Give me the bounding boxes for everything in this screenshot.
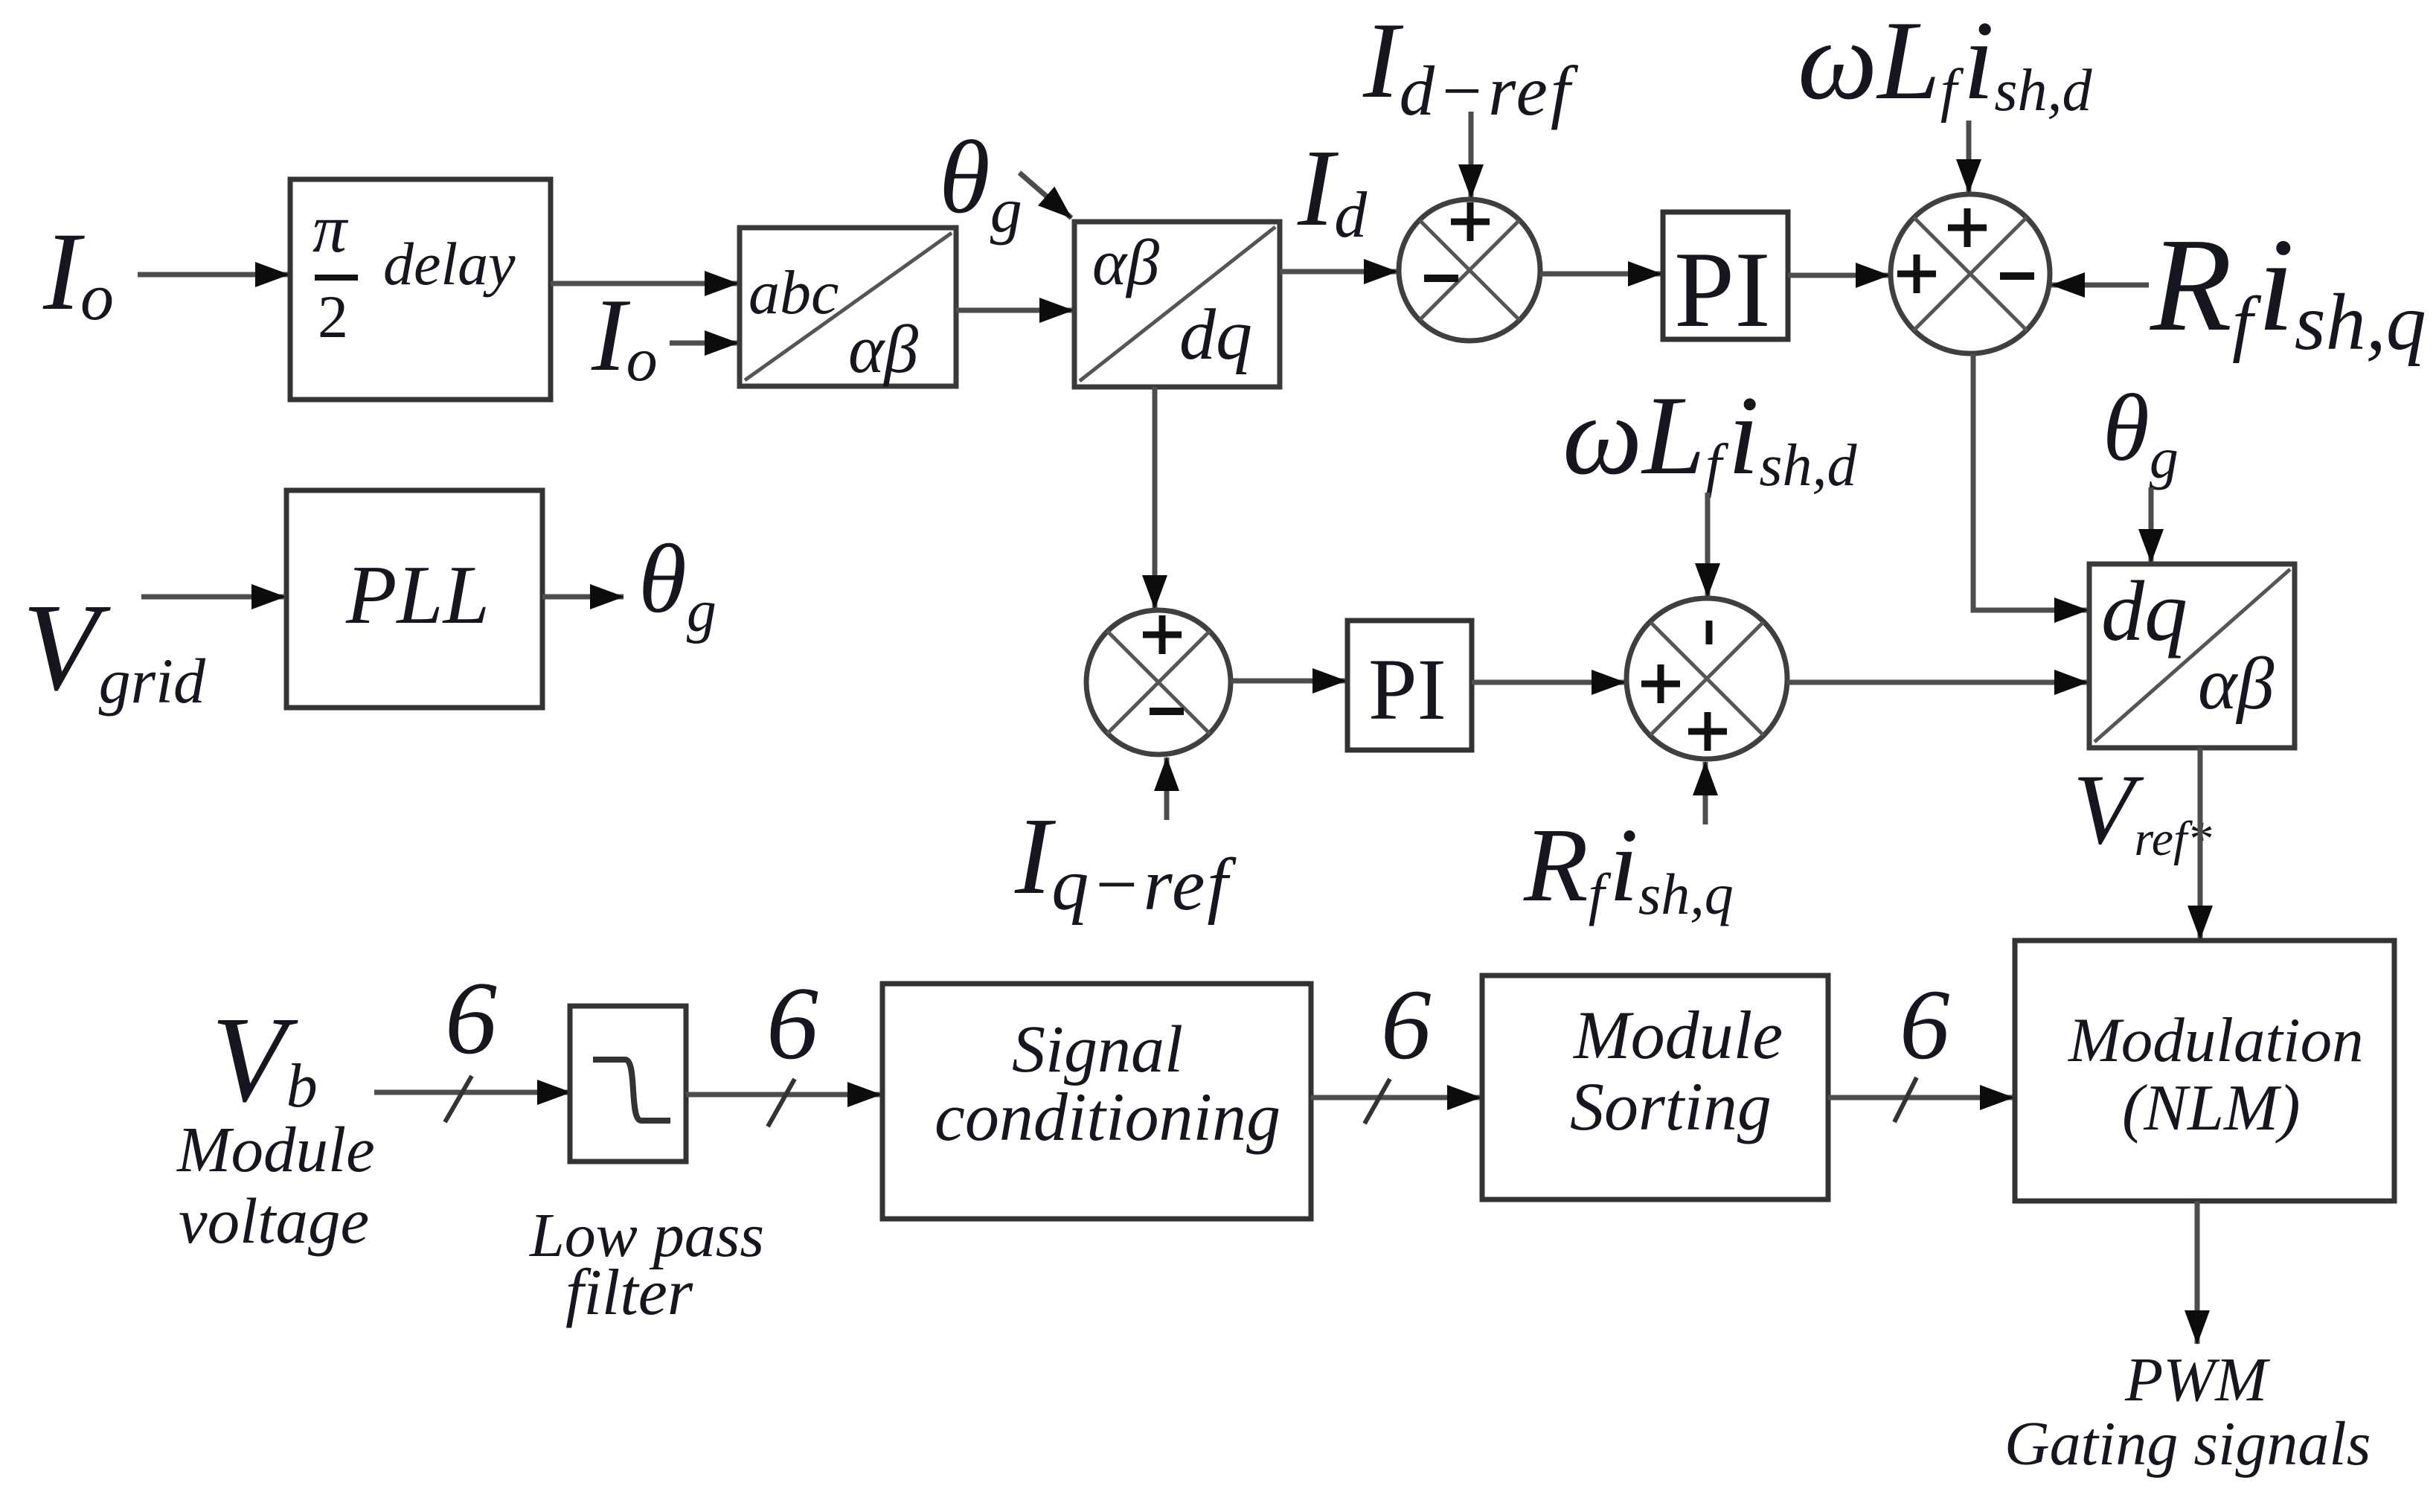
wire: low pass filter to signal conditioning bbox=[686, 1092, 881, 1098]
wire: alpha-beta/dq down to summing junction S3 bbox=[1153, 387, 1158, 609]
wire: delay to abc block bbox=[551, 281, 738, 286]
wire: S4 to dq/alpha-beta block bbox=[1787, 680, 2088, 685]
wire: S3 to PI controller 2 bbox=[1231, 679, 1346, 684]
wire: slash mark 2 bbox=[768, 1079, 795, 1127]
svg-text:PI: PI bbox=[1368, 641, 1446, 738]
svg-text:ωLfish,d: ωLfish,d bbox=[1798, 0, 2092, 124]
svg-text:Vb: Vb bbox=[211, 991, 318, 1127]
svg-text:Modulation: Modulation bbox=[2068, 1005, 2364, 1075]
svg-text:Id−ref: Id−ref bbox=[1362, 0, 1579, 130]
svg-text:αβ: αβ bbox=[848, 311, 918, 387]
wire: PI 2 to summing junction S4 bbox=[1472, 680, 1625, 685]
wire: Vgrid into PLL bbox=[141, 595, 285, 600]
svg-text:Io: Io bbox=[42, 210, 114, 334]
svg-text:θg: θg bbox=[2103, 375, 2179, 490]
svg-text:PWM: PWM bbox=[2124, 1345, 2270, 1415]
wire: Vref down to modulation block bbox=[2198, 748, 2203, 939]
svg-text:Sorting: Sorting bbox=[1570, 1069, 1772, 1144]
svg-text:Signal: Signal bbox=[1012, 1013, 1183, 1086]
summing junction S3 bbox=[1086, 610, 1231, 755]
wire: Rf-ish,q into S2 from right bbox=[2051, 283, 2149, 288]
wire: Vb to low pass filter bbox=[374, 1090, 571, 1095]
wire: signal conditioning to module sorting bbox=[1311, 1095, 1481, 1101]
svg-text:θg: θg bbox=[638, 524, 717, 644]
svg-text:PI: PI bbox=[1674, 229, 1771, 350]
svg-text:6: 6 bbox=[766, 966, 818, 1081]
svg-text:voltage: voltage bbox=[179, 1185, 369, 1257]
svg-text:abc: abc bbox=[749, 258, 839, 327]
wire: S1 to PI controller 1 bbox=[1540, 272, 1661, 277]
svg-text:(NLM): (NLM) bbox=[2122, 1072, 2301, 1144]
wire: Id-ref down into summing junction S1 bbox=[1469, 112, 1474, 198]
block: pi/2 delay bbox=[290, 179, 551, 400]
svg-text:Id: Id bbox=[1297, 127, 1368, 252]
wire: Rf-ish,q up into S4 bbox=[1703, 762, 1708, 824]
svg-text:dq: dq bbox=[1179, 295, 1252, 375]
wire: PLL output bbox=[542, 595, 624, 600]
wire: Io to abc block bbox=[670, 341, 738, 346]
svg-text:Module: Module bbox=[176, 1113, 375, 1185]
svg-text:θg: θg bbox=[939, 120, 1022, 246]
svg-text:Gating signals: Gating signals bbox=[2004, 1409, 2371, 1479]
svg-text:αβ: αβ bbox=[2198, 642, 2274, 725]
svg-text:Io: Io bbox=[591, 278, 658, 394]
block: abc to alpha-beta transform bbox=[740, 228, 956, 387]
summing junction S2 bbox=[1891, 194, 2050, 353]
block: module sorting bbox=[1482, 976, 1828, 1199]
svg-text:Iq−ref: Iq−ref bbox=[1014, 795, 1237, 926]
wire: theta-g diagonal arrow bbox=[1019, 173, 1071, 218]
svg-text:6: 6 bbox=[1900, 970, 1950, 1080]
svg-text:Module: Module bbox=[1572, 997, 1783, 1073]
wire: abc block to alpha-beta/dq block bbox=[956, 308, 1073, 313]
svg-text:αβ: αβ bbox=[1092, 227, 1159, 299]
svg-text:2: 2 bbox=[318, 283, 348, 350]
summing junction S1 bbox=[1399, 199, 1540, 341]
svg-text:6: 6 bbox=[1381, 970, 1432, 1080]
wire: omega-Lf down into S2 bbox=[1967, 121, 1972, 193]
wire: theta-g down into dq/alpha-beta bbox=[2149, 487, 2154, 563]
wire: slash mark 3 bbox=[1365, 1079, 1390, 1124]
wire: Io input arrow bbox=[138, 272, 289, 278]
block: alpha-beta to dq transform bbox=[1074, 222, 1280, 387]
wire: slash mark 4 bbox=[1894, 1077, 1917, 1122]
svg-text:dq: dq bbox=[2101, 564, 2187, 659]
svg-text:6: 6 bbox=[445, 961, 497, 1076]
svg-text:Rfish,q: Rfish,q bbox=[1523, 806, 1734, 926]
block: low pass filter bbox=[570, 1006, 686, 1162]
block: PI controller 2 bbox=[1347, 621, 1472, 750]
svg-text:conditioning: conditioning bbox=[935, 1079, 1280, 1155]
svg-text:filter: filter bbox=[565, 1257, 693, 1329]
wire: modulation output down bbox=[2195, 1201, 2200, 1344]
wire: PI 1 to summing junction S2 bbox=[1788, 273, 1889, 278]
svg-text:PLL: PLL bbox=[345, 549, 490, 641]
wire: slash mark 1 bbox=[445, 1076, 472, 1122]
wire: S2 output elbow to dq/alpha-beta block bbox=[1973, 353, 2088, 610]
svg-text:Rfish,q: Rfish,q bbox=[2150, 211, 2426, 367]
svg-text:π: π bbox=[312, 190, 349, 266]
svg-text:delay: delay bbox=[383, 230, 516, 298]
wire: omega-Lf down into S4 bbox=[1705, 493, 1711, 597]
block: modulation (NLM) bbox=[2015, 941, 2394, 1201]
svg-text:Vref*: Vref* bbox=[2073, 755, 2211, 866]
block: PI controller 1 bbox=[1663, 212, 1788, 350]
wire: dq output to summing junction S1 bbox=[1280, 269, 1397, 275]
wire: Iq-ref up into S3 bbox=[1164, 757, 1170, 820]
block: signal conditioning bbox=[882, 984, 1311, 1219]
svg-text:ωLfish,d: ωLfish,d bbox=[1562, 373, 1857, 499]
summing junction S4 bbox=[1626, 598, 1787, 759]
block: dq to alpha-beta transform bbox=[2089, 564, 2295, 748]
wire: module sorting to modulation bbox=[1828, 1095, 2013, 1101]
block: PLL bbox=[286, 490, 542, 708]
